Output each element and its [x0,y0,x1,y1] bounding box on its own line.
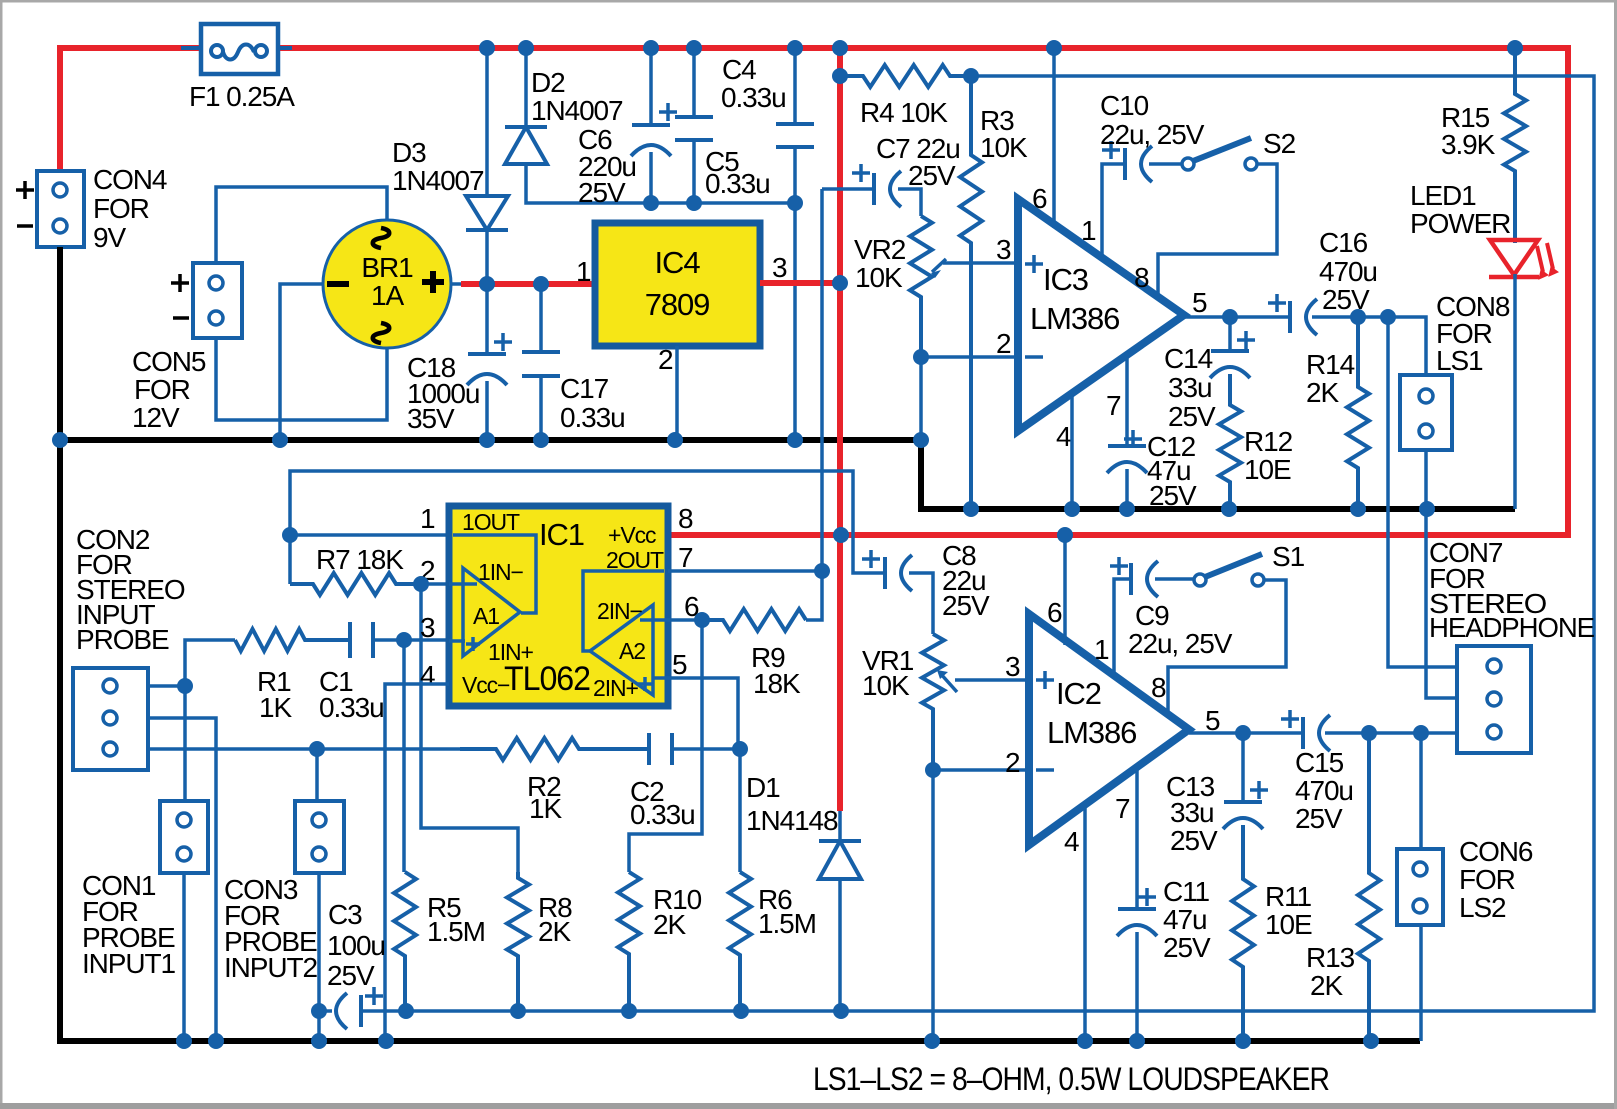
svg-text:470u: 470u [1319,256,1377,287]
junction dot (404,640) [396,632,412,648]
wire IC3 pin7 to C12 [1125,355,1129,446]
svg-text:33u: 33u [1168,372,1211,403]
svg-text:LM386: LM386 [1030,301,1119,336]
svg-text:C16: C16 [1319,227,1368,258]
svg-text:R11: R11 [1265,881,1312,912]
svg-text:8: 8 [1134,262,1149,293]
wire C1 to pin3 [372,638,446,642]
svg-text:0.33u: 0.33u [705,168,770,199]
svg-text:2K: 2K [1306,377,1339,408]
plus mark C12 [1124,430,1142,448]
capacitor C4 0.33u [776,122,814,126]
svg-text:PROBE: PROBE [76,624,169,655]
junction dot (1369,733) [1361,725,1377,741]
svg-text:2: 2 [1005,747,1020,778]
junction dot (60,440) [52,432,68,448]
wire +V red vertical [837,48,843,811]
wire R7 left riser [288,535,292,584]
wire C8 to VR1 [909,573,933,634]
wire IC2 pin4 to ground [1083,806,1087,1041]
wire C4 top lead [793,48,797,124]
svg-text:0.33u: 0.33u [319,692,384,723]
junction dot (932,1041) [924,1033,940,1049]
potentiometer VR1 10K [922,634,944,770]
switch S2 [1182,158,1194,170]
junction dot (841,535) [833,527,849,543]
minus mark IC3 inv [1025,355,1043,359]
wire C5 top lead [692,48,696,117]
svg-text:R14: R14 [1306,349,1355,380]
IC1 internal pin5 stub [652,676,668,680]
connector CON7 [1457,646,1531,753]
plus mark IC2 noninv [1036,671,1054,689]
svg-text:CON6: CON6 [1459,836,1533,867]
svg-text:D1: D1 [746,772,780,803]
junction dot (921,440) [913,432,929,448]
capacitor C2 0.33u [647,733,651,765]
wire to CON7 pin1 [1388,317,1457,667]
junction dot (740,749) [732,741,748,757]
svg-text:8: 8 [1151,672,1166,703]
svg-text:A1: A1 [473,603,499,629]
junction dot (1388,317) [1380,309,1396,325]
connector CON8 [1400,375,1452,450]
junction dot (971,509) [963,501,979,517]
wire D2 top lead [524,48,528,127]
capacitor C10 22u [1123,148,1127,180]
resistor R8 2K [507,872,529,1011]
switch S1 [1194,574,1206,586]
svg-text:4: 4 [420,660,435,691]
wire pin2 to IC1 [421,582,446,586]
svg-text:1: 1 [576,256,591,287]
LED LED1 power [1490,240,1538,275]
svg-text:22u, 25V: 22u, 25V [1128,628,1233,659]
capacitor C5 0.33u [675,115,713,119]
svg-text:0.33u: 0.33u [560,402,625,433]
wire pin1 to IC1 [290,533,446,537]
gray page edge bottom [0,1103,1617,1109]
svg-text:22u, 25V: 22u, 25V [1100,119,1205,150]
svg-text:25V: 25V [908,160,956,191]
wire D2 bottom lead and cap ground line [526,164,795,203]
svg-text:3: 3 [1005,651,1020,682]
svg-text:8: 8 [678,503,693,534]
wire IC2 pin6 to +Vcc [1063,535,1067,645]
svg-text:10K: 10K [855,262,903,293]
svg-text:A2: A2 [619,638,645,664]
capacitor C13 33u [1224,800,1262,804]
svg-text:FOR: FOR [134,374,190,405]
wire C14 bottom to R12 [1228,374,1232,405]
svg-text:IC4: IC4 [655,245,701,280]
wire VR2 bottom to ground [919,357,923,440]
svg-text:1: 1 [1081,215,1096,246]
plus mark A1 noninv [466,637,480,651]
junction dot (185,686) [177,678,193,694]
wire C15 out [1325,731,1457,735]
svg-text:LM386: LM386 [1047,715,1136,750]
svg-text:INPUT1: INPUT1 [82,948,176,979]
junction dot (421,584) [413,576,429,592]
plus mark C14 [1237,331,1255,349]
junction dot (1515,48) [1507,40,1523,56]
svg-text:LS1–LS2 = 8–OHM, 0.5W LOUDSPEA: LS1–LS2 = 8–OHM, 0.5W LOUDSPEAKER [813,1061,1329,1097]
svg-text:FOR: FOR [93,193,149,224]
wire C12 to ground [1125,469,1129,509]
svg-text:2: 2 [658,344,673,375]
junction dot (795,48) [787,40,803,56]
junction dot (651,48) [643,40,659,56]
junction dot (741,1011) [733,1003,749,1019]
wire BR1 plus stub [451,282,463,286]
wire IC1 pin4 to ground [385,684,449,1041]
svg-text:R7 18K: R7 18K [316,544,404,575]
fuse F1 [181,46,292,50]
diode D1 1N4148 [819,839,861,843]
wire C16 out [1312,317,1426,375]
svg-text:3: 3 [996,234,1011,265]
junction dot (841,1011) [833,1003,849,1019]
plus mark C15 [1281,710,1299,728]
svg-text:25V: 25V [327,960,375,991]
junction dot (675,440) [667,432,683,448]
svg-text:BR1: BR1 [361,252,413,283]
wire C3 left lead [319,1009,332,1013]
plus mark C10 [1102,141,1120,159]
svg-text:10E: 10E [1244,454,1291,485]
svg-text:35V: 35V [407,403,455,434]
resistor R1 1K [235,629,348,651]
junction dot (840,283) [832,275,848,291]
wire IC1 pin5 [668,678,738,749]
minus mark CON5 [173,316,189,320]
wire R9 riser to pin7 [806,572,822,620]
IC1 internal pin6 stub [640,618,668,622]
junction dot (487,48) [479,40,495,56]
junction dot (1072,509) [1064,501,1080,517]
capacitor C15 470u [1301,717,1305,749]
plus mark C13 [1250,781,1268,799]
junction dot (1421,733) [1413,725,1429,741]
junction dot (290,535) [282,527,298,543]
plus mark C8 [862,550,880,568]
wire node to R1 [185,640,235,686]
svg-text:IC3: IC3 [1043,262,1088,297]
svg-text:LS2: LS2 [1459,892,1506,923]
svg-text:1K: 1K [259,692,292,723]
wire C7 right to VR2 [898,189,921,216]
junction dot (541,440) [533,432,549,448]
junction dot (487,284) [479,276,495,292]
junction dot (933,770) [925,762,941,778]
svg-text:2: 2 [996,328,1011,359]
junction dot (1127,509) [1119,501,1135,517]
junction dot (840,48) [832,40,848,56]
minus mark CON4 [17,224,33,228]
junction dot (1229,509) [1221,501,1237,517]
junction dot (1427,509) [1419,501,1435,517]
wire D1 anode lead [838,879,842,1011]
svg-text:TL062: TL062 [504,660,590,698]
svg-text:100u: 100u [327,930,385,961]
wire C7 left lead [822,187,874,191]
junction dot (319,1011) [311,1003,327,1019]
svg-text:D3: D3 [392,137,426,168]
svg-text:C9: C9 [1135,600,1169,631]
svg-text:2IN+: 2IN+ [593,675,638,701]
capacitor C3 100u [359,995,363,1027]
svg-text:7: 7 [678,542,693,573]
svg-text:1OUT: 1OUT [462,509,520,535]
wire CON5 plus to BR1 AC top [216,187,387,263]
junction dot (840,76) [832,68,848,84]
svg-text:25V: 25V [1295,803,1343,834]
svg-text:1: 1 [420,503,435,534]
wire VR1 wiper to pin3 [955,678,1029,682]
plus mark C11 [1138,888,1156,906]
wire C6 top lead [649,48,653,125]
wire C2 to pin5 node [673,747,740,751]
svg-text:1IN−: 1IN− [478,559,523,585]
junction dot (971,76) [963,68,979,84]
resistor R10 2K [618,872,640,1011]
wire IC3 pin4 to ground [1070,392,1074,509]
gray page edge top [0,0,1617,3]
svg-text:C14: C14 [1164,343,1213,374]
junction dot (280,440) [272,432,288,448]
resistor R5 1.5M [394,872,416,1011]
junction dot (1085,1041) [1077,1033,1093,1049]
wire C11 to ground [1135,932,1139,1041]
wire C17 top lead [539,284,543,352]
plus mark A2 noninv [638,677,652,691]
svg-text:12V: 12V [132,402,180,433]
wire BR1 minus to ground [280,284,323,440]
IC1 internal pin2 stub [449,582,477,586]
wire IC3 pin6 to +9V [1052,48,1056,228]
svg-text:C11: C11 [1163,876,1210,907]
resistor R9 18K [702,609,806,631]
junction dot (541,284) [533,276,549,292]
wire VR2 bottom to pin2 [921,355,1018,359]
junction dot (1230,317) [1222,309,1238,325]
IC1 internal trace 1OUT [453,535,536,613]
svg-text:2OUT: 2OUT [606,547,664,573]
wire C6 bottom lead [649,152,653,203]
capacitor C8 22u [883,557,887,589]
wire IC3 pin1 riser [1102,164,1125,258]
plus mark C3 [365,987,383,1005]
svg-text:3: 3 [772,252,787,283]
svg-text:1N4007: 1N4007 [531,95,623,126]
junction dot (317,749) [309,741,325,757]
wire pin5 node to R6 [738,749,742,872]
svg-text:470u: 470u [1295,775,1353,806]
junction dot (694,48) [686,40,702,56]
svg-text:IC2: IC2 [1056,676,1101,711]
svg-text:1N4148: 1N4148 [746,805,838,836]
wire BR1 plus red to IC4 in [461,281,595,287]
VR2 wiper arrow [932,259,946,272]
svg-text:6: 6 [1047,597,1062,628]
svg-text:2K: 2K [1310,970,1343,1001]
junction dot (216,1041) [208,1033,224,1049]
junction dot (406,1011) [398,1003,414,1019]
plus mark CON4 [16,181,34,199]
capacitor C12 47u [1108,444,1146,448]
junction dot (518,1011) [510,1003,526,1019]
wire S2 to pin8 [1158,164,1277,298]
wire C18 top lead [485,287,489,354]
capacitor C14 33u [1211,349,1249,353]
svg-text:7809: 7809 [645,287,710,322]
wire C18 bottom lead [485,381,489,440]
junction dot (319,1041) [311,1033,327,1049]
gray page edge right [1614,0,1617,1109]
svg-text:1.5M: 1.5M [427,916,485,947]
svg-text:Vcc−: Vcc− [462,672,510,698]
junction dot (651,203) [643,195,659,211]
resistor R15 3.9K [1504,48,1526,243]
junction dot (1358,317) [1350,309,1366,325]
plus mark C9 [1110,557,1128,575]
wire C9 to S1 [1155,577,1194,581]
wire C5 bottom lead [692,140,696,203]
wire IC4 out red [760,280,840,286]
regulator IC4 7809 [595,223,760,346]
wire CON2 pin3 to R2 [148,747,496,751]
junction dot (921,357) [913,349,929,365]
capacitor C9 22u [1129,563,1133,595]
svg-text:47u: 47u [1163,904,1206,935]
connector CON5 [193,263,242,338]
VR1 wiper arrow [940,673,957,692]
wire +9V top rail left segment [60,48,203,171]
capacitor C17 0.33u [522,350,560,354]
plus mark IC3 noninv [1025,255,1043,273]
svg-text:25V: 25V [1149,480,1197,511]
wire IC2 pin5 out [1189,731,1303,735]
junction dot (1054,48) [1046,40,1062,56]
gray page edge left [0,0,3,1109]
capacitor C18 1000u [468,352,506,356]
resistor R7 18K [290,573,421,595]
wire bias rail [361,76,1594,1011]
svg-text:LS1: LS1 [1436,345,1483,376]
op-amp A2 [590,605,653,695]
wire pin3 to R5 [402,640,406,872]
svg-text:INPUT2: INPUT2 [224,952,318,983]
connector CON1 [160,801,208,873]
svg-text:C10: C10 [1100,90,1149,121]
svg-text:9V: 9V [93,222,126,253]
resistor R3 10K [960,76,982,509]
svg-text:3: 3 [420,612,435,643]
wire S1 to pin8 [1168,580,1286,712]
wire LED1 to ground bus [1513,274,1517,509]
wire D1 cathode stub [838,811,842,841]
resistor R6 1.5M [729,872,751,1011]
op-amp A1 [463,568,520,656]
resistor R12 10E [1219,374,1241,509]
junction dot (795,440) [787,432,803,448]
svg-text:5: 5 [672,649,687,680]
wire +9V top rail [277,48,1568,535]
svg-text:33u: 33u [1170,797,1213,828]
junction dot (1243,733) [1235,725,1251,741]
wire VR2 wiper to pin3 [943,261,1018,265]
capacitor C16 470u [1288,301,1292,333]
junction dot (629,1011) [621,1003,637,1019]
svg-text:6: 6 [1032,183,1047,214]
svg-text:R13: R13 [1306,942,1355,973]
svg-text:2K: 2K [653,909,686,940]
svg-text:1A: 1A [371,280,404,311]
wire pin7 to C7 vertical [820,189,824,571]
svg-text:10K: 10K [980,132,1028,163]
junction dot (795,203) [787,195,803,211]
wire pin5 to C13 [1241,733,1245,802]
svg-text:R12: R12 [1244,426,1293,457]
svg-text:C15: C15 [1295,747,1344,778]
wire IC3 pin5 out [1184,315,1290,319]
wire pin6 to R10 [629,620,702,872]
capacitor C11 47u [1118,907,1156,911]
wire CON6 bottom to ground [1419,925,1423,1041]
wire C10 to S2 [1149,162,1182,166]
connector CON3 [295,801,344,873]
op-amp IC2 LM386 [1029,614,1189,845]
junction dot (1243,1041) [1235,1033,1251,1049]
resistor R14 2K [1347,317,1369,509]
plus mark C6 [659,103,677,121]
svg-text:2IN−: 2IN− [597,598,642,624]
capacitor C1 0.33u [348,622,352,658]
svg-text:0.33u: 0.33u [721,82,786,113]
junction dot (1065,535) [1057,527,1073,543]
junction dot (694,203) [686,195,702,211]
svg-text:10K: 10K [862,670,910,701]
resistor R11 10E [1232,825,1254,1041]
junction dot (487,440) [479,432,495,448]
capacitor C6 220u [632,123,670,127]
svg-text:7: 7 [1106,390,1121,421]
junction dot (702,620) [694,612,710,628]
connector CON4 [37,171,84,247]
wire CON3 bottom to ground [317,873,321,1041]
IC1 internal pin3 stub [449,639,465,643]
svg-text:C3: C3 [328,899,362,930]
svg-text:HEADPHONE: HEADPHONE [1429,612,1594,643]
svg-text:4: 4 [1064,826,1079,857]
wire ground left vertical [60,247,1420,1041]
junction dot (1371,1041) [1363,1033,1379,1049]
wire C14 to R12 [1228,317,1232,351]
svg-text:CON4: CON4 [93,164,167,195]
potentiometer VR2 10K [910,216,932,357]
junction dot (1137,1041) [1129,1033,1145,1049]
wire IC1 pin6 [668,618,702,622]
wire C13 to R11 [1241,825,1245,879]
svg-text:7: 7 [1115,793,1130,824]
connector CON2 [73,668,148,770]
wire CON1 top [183,686,187,801]
resistor R2 1K [460,738,649,760]
plus mark C16 [1268,294,1286,312]
junction dot (822,571) [814,563,830,579]
wire CON2 pin1 to R1 node [148,684,185,688]
